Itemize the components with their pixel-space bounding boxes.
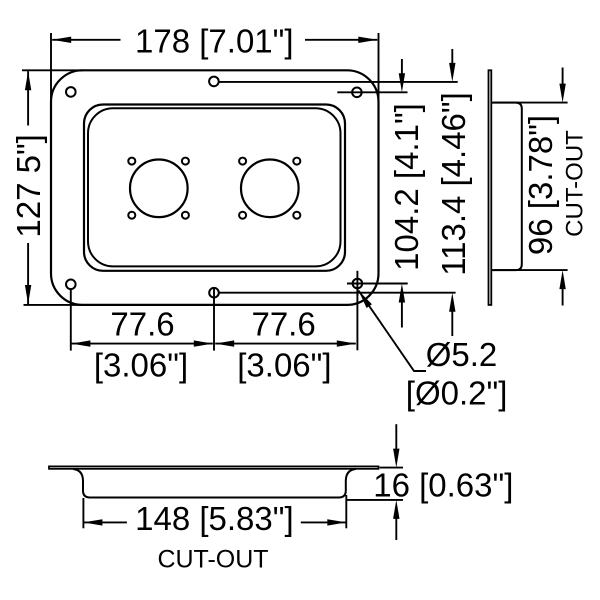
mounting hole top-left [66, 87, 76, 97]
svg-text:104.2 [4.1"]: 104.2 [4.1"] [388, 103, 425, 271]
dimension 77.6 [3.06"] left hole pitch [71, 287, 214, 384]
bottom side view: flange plate [49, 466, 378, 468]
bottom side view: dish profile [73, 469, 356, 498]
front view: outer plate outline [51, 70, 379, 305]
dimension 96 [3.78"] cut-out height (side view) [494, 68, 588, 306]
svg-text:Ø5.2: Ø5.2 [426, 336, 498, 373]
dimension 77.6 [3.06"] right hole pitch [215, 288, 357, 383]
mounting hole bottom-right (referenced by diameter callout) [353, 279, 363, 289]
svg-text:[Ø0.2"]: [Ø0.2"] [406, 374, 508, 411]
dimension 148 [5.83"] cut-out width (bottom view) [83, 495, 346, 573]
hole diameter callout Ø5.2 [Ø0.2"] with leader [359, 291, 508, 412]
svg-text:127 5"]: 127 5"] [10, 134, 47, 237]
dimension 104.2 [4.1"] corner hole spacing [337, 59, 425, 328]
front view: dish recess outer edge [84, 105, 345, 271]
svg-text:CUT-OUT: CUT-OUT [157, 545, 268, 573]
dimension 113.4 [4.46"] center hole spacing [219, 49, 472, 336]
dimension 127 [5"] plate height [10, 70, 83, 305]
left XLR screw holes [128, 158, 189, 219]
right side view: flange plate [489, 70, 492, 305]
svg-text:178 [7.01"]: 178 [7.01"] [135, 22, 294, 59]
svg-text:CUT-OUT: CUT-OUT [561, 130, 588, 237]
svg-text:[3.06"]: [3.06"] [237, 347, 331, 384]
svg-text:96 [3.78"]: 96 [3.78"] [522, 115, 559, 255]
svg-text:16 [0.63"]: 16 [0.63"] [373, 467, 513, 504]
dimension 178 [7.01"] plate width [51, 22, 379, 103]
mounting hole bottom-left [66, 280, 76, 290]
mounting hole top-center [209, 77, 219, 87]
mounting hole top-right [352, 88, 362, 98]
svg-text:77.6: 77.6 [251, 306, 315, 343]
mounting hole bottom-center [209, 288, 219, 298]
right XLR connector cutout [241, 160, 299, 218]
svg-text:148 [5.83"]: 148 [5.83"] [135, 500, 294, 537]
svg-text:77.6: 77.6 [110, 306, 174, 343]
centerline cross on bottom-right hole [356, 271, 358, 296]
front view: dish recess inner edge [88, 108, 341, 266]
svg-text:[3.06"]: [3.06"] [94, 347, 188, 384]
right XLR screw holes [239, 158, 300, 219]
right side view: dish profile [492, 103, 522, 271]
left XLR connector cutout [130, 160, 188, 218]
dimension 16 [0.63"] dish depth [347, 424, 514, 540]
svg-text:113.4 [4.46"]: 113.4 [4.46"] [435, 92, 472, 276]
